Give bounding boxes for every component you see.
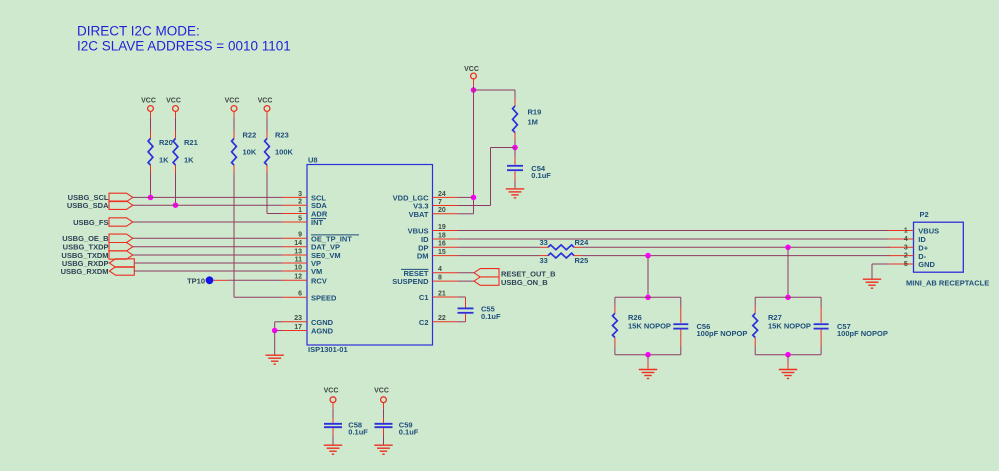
pin 3 SCL of U8 <box>282 196 307 198</box>
wire R22 to SPEED pin <box>233 173 235 297</box>
svg-text:5: 5 <box>904 261 908 268</box>
svg-text:VCC: VCC <box>141 97 156 104</box>
pin 17 AGND of U8 <box>282 330 307 332</box>
wire bottom rail to ground 2 <box>787 355 789 362</box>
svg-text:2: 2 <box>298 199 302 206</box>
pin 4 RESET of U8 <box>433 272 458 274</box>
resistor R26 <box>614 297 616 305</box>
junction R27/C57 bottom <box>785 352 791 358</box>
resistor R27 <box>754 297 756 305</box>
svg-text:USBG_SDA: USBG_SDA <box>67 201 109 210</box>
port flag USBG_FS <box>109 218 133 226</box>
wire R24 to P2 D+ <box>582 246 890 248</box>
svg-text:1: 1 <box>904 228 908 235</box>
svg-text:8: 8 <box>438 275 442 282</box>
svg-text:VCC: VCC <box>258 97 273 104</box>
svg-text:INT: INT <box>311 218 324 227</box>
pin 2 SDA of U8 <box>282 204 307 206</box>
svg-text:MINI_AB RECEPTACLE: MINI_AB RECEPTACLE <box>906 279 989 288</box>
wire USBG_SDA to U8 <box>133 204 282 206</box>
svg-text:C1: C1 <box>419 293 429 302</box>
svg-text:TP10: TP10 <box>187 276 205 285</box>
wire VCC to R21 <box>175 118 177 131</box>
svg-text:R25: R25 <box>575 256 589 265</box>
wire VCC to R20 <box>150 118 152 131</box>
svg-text:4: 4 <box>438 266 442 273</box>
capacitor C56 <box>680 297 682 307</box>
resistor R22 <box>233 131 235 139</box>
capacitor C57 <box>820 297 822 307</box>
svg-text:23: 23 <box>294 315 302 322</box>
junction DM tap <box>645 253 651 259</box>
wire ID net <box>458 238 891 240</box>
wire R26/C56 top rail <box>615 296 681 298</box>
svg-text:4: 4 <box>904 236 908 243</box>
svg-text:17: 17 <box>294 324 302 331</box>
svg-text:33: 33 <box>540 238 548 247</box>
capacitor C55 <box>465 297 467 308</box>
svg-text:RCV: RCV <box>311 276 327 285</box>
svg-text:USBG_ON_B: USBG_ON_B <box>501 278 548 287</box>
svg-text:16: 16 <box>438 241 446 248</box>
svg-text:R22: R22 <box>243 131 257 140</box>
port flag USBG_OE_B <box>109 234 133 242</box>
svg-text:100K: 100K <box>275 148 294 157</box>
svg-text:USBG_FS: USBG_FS <box>73 218 108 227</box>
pin 10 VM of U8 <box>282 270 307 272</box>
junction R19/C54/V3.3 <box>512 145 518 151</box>
ground below R27/C57 <box>779 369 797 371</box>
pin 14 DAT_VP of U8 <box>282 246 307 248</box>
wire VCC to R23 <box>266 118 268 131</box>
wire DM tap down <box>647 256 649 298</box>
wire R27/C57 bottom rail <box>755 354 821 356</box>
resistor R23 <box>266 131 268 139</box>
svg-text:10: 10 <box>294 264 302 271</box>
wire USBG_SCL to U8 <box>133 196 282 198</box>
svg-text:9: 9 <box>298 232 302 239</box>
svg-text:CGND: CGND <box>311 318 334 327</box>
port flag USBG_TXDP <box>109 243 133 251</box>
wire DM to R25 <box>458 255 541 257</box>
op-amp U8 body (ISP1301-01 box) <box>307 165 433 346</box>
svg-text:R20: R20 <box>159 138 173 147</box>
wire bottom rail to ground <box>647 355 649 362</box>
svg-text:R24: R24 <box>575 238 590 247</box>
connector P2 body <box>914 222 964 272</box>
pin 9 OE_TP_INT of U8 <box>282 237 307 239</box>
svg-text:1K: 1K <box>184 156 194 165</box>
svg-text:6: 6 <box>298 291 302 298</box>
svg-text:I2C SLAVE ADDRESS = 0010 1101: I2C SLAVE ADDRESS = 0010 1101 <box>77 39 291 54</box>
port flag USBG_TXDM <box>109 251 133 259</box>
pin 1 ADR of U8 <box>282 213 307 215</box>
pin 7 V3.3 of U8 <box>433 205 458 207</box>
svg-text:VBAT: VBAT <box>409 210 429 219</box>
resistor R19 <box>514 98 516 106</box>
pin 4 ID of P2 <box>889 238 914 240</box>
svg-text:VCC: VCC <box>166 97 181 104</box>
svg-text:11: 11 <box>295 256 303 263</box>
ground below C54 <box>506 188 524 190</box>
wire VCC to R19 top <box>474 89 516 91</box>
wire R21 to SDA net <box>175 173 177 205</box>
svg-text:3: 3 <box>904 244 908 251</box>
wire R26/C56 bottom rail <box>615 354 681 356</box>
capacitor C54 <box>514 148 516 158</box>
wire VBUS net <box>458 230 891 232</box>
svg-text:1: 1 <box>298 207 302 214</box>
wire VCC to C58 <box>332 409 334 418</box>
svg-text:AGND: AGND <box>311 327 334 336</box>
svg-text:7: 7 <box>438 199 442 206</box>
port flag RESET_OUT_B <box>474 269 499 277</box>
wire SUSPEND pin to flag <box>458 280 475 282</box>
pin 20 VBAT of U8 <box>433 213 458 215</box>
junction VDD_LGC <box>471 195 477 201</box>
wire CGND down to AGND <box>274 322 276 331</box>
wire CGND pin <box>275 321 282 323</box>
ground at P2 <box>863 278 881 280</box>
junction R20/SCL <box>148 195 154 201</box>
wire VCC to R22 <box>233 118 235 131</box>
svg-text:VM: VM <box>311 267 322 276</box>
svg-text:24: 24 <box>438 191 446 198</box>
svg-text:U8: U8 <box>308 156 318 165</box>
wire P2 GND to ground <box>872 263 889 265</box>
svg-text:0.1uF: 0.1uF <box>399 428 419 437</box>
wire TP10 to RCV pin <box>228 279 282 281</box>
svg-text:VCC: VCC <box>374 388 389 395</box>
pin 21 C1 of U8 <box>433 296 458 298</box>
capacitor C59 <box>383 418 385 423</box>
svg-text:0.1uF: 0.1uF <box>531 171 551 180</box>
pin 24 VDD_LGC of U8 <box>433 196 458 198</box>
wire VDD_LGC pin to rail <box>458 196 474 198</box>
wire C1 pin to C55 <box>458 296 466 298</box>
pin 6 SPEED of U8 <box>282 296 307 298</box>
svg-text:VCC: VCC <box>324 388 339 395</box>
svg-text:C2: C2 <box>419 318 429 327</box>
svg-text:12: 12 <box>294 274 302 281</box>
junction AGND <box>272 328 278 334</box>
wire R25 to P2 D- <box>582 255 890 257</box>
svg-text:10K: 10K <box>243 148 257 157</box>
ground below U8 <box>266 354 284 356</box>
wire USBG_TXDP to U8 <box>133 246 282 248</box>
pin 22 C2 of U8 <box>433 321 458 323</box>
junction R27/C57 top <box>785 295 791 301</box>
wire R20 to SCL net <box>150 173 152 197</box>
pin 18 ID of U8 <box>433 238 458 240</box>
svg-text:18: 18 <box>438 232 446 239</box>
junction R26/C56 bottom <box>645 352 651 358</box>
pin 1 VBUS of P2 <box>889 230 914 232</box>
resistor R20 <box>150 131 152 139</box>
pin 8 SUSPEND of U8 <box>433 280 458 282</box>
wire R19 bottom to junction <box>514 141 516 148</box>
svg-text:ISP1301-01: ISP1301-01 <box>308 345 348 354</box>
svg-text:R21: R21 <box>184 138 198 147</box>
svg-text:GND: GND <box>918 260 935 269</box>
svg-text:13: 13 <box>294 248 302 255</box>
wire AGND pin <box>275 330 282 332</box>
junction R21/SDA <box>173 202 179 208</box>
pin 13 SE0_VM of U8 <box>282 254 307 256</box>
wire DP tap down <box>787 247 789 297</box>
svg-text:VCC: VCC <box>464 66 479 73</box>
capacitor C58 <box>332 418 334 423</box>
svg-text:19: 19 <box>438 224 446 231</box>
resistor R24 <box>540 246 548 248</box>
pin 11 VP of U8 <box>282 262 307 264</box>
wire VCC to C59 <box>383 409 385 418</box>
svg-text:15K NOPOP: 15K NOPOP <box>628 322 671 331</box>
wire USBG_RXDP to U8 <box>134 262 282 264</box>
svg-text:22: 22 <box>438 315 446 322</box>
svg-text:R23: R23 <box>275 131 289 140</box>
wire VBAT pin to rail <box>458 213 474 215</box>
svg-text:0.1uF: 0.1uF <box>481 312 501 321</box>
svg-text:SUSPEND: SUSPEND <box>392 277 429 286</box>
resistor R25 <box>540 255 548 257</box>
pin 12 RCV of U8 <box>282 279 307 281</box>
svg-text:21: 21 <box>438 290 446 297</box>
ground below C58 <box>324 444 342 446</box>
svg-text:DM: DM <box>417 252 429 261</box>
svg-text:SPEED: SPEED <box>311 293 337 302</box>
port flag USBG_ON_B <box>474 277 499 285</box>
port flag USBG_RXDP <box>109 259 134 267</box>
svg-text:33: 33 <box>540 256 548 265</box>
pin 5 GND of P2 <box>889 263 914 265</box>
pin 16 DP of U8 <box>433 246 458 248</box>
junction VCC rail <box>471 87 477 93</box>
wire USBG_TXDM to U8 <box>133 254 282 256</box>
pin 3 D+ of P2 <box>889 246 914 248</box>
svg-text:3: 3 <box>298 191 302 198</box>
svg-text:14: 14 <box>294 240 302 247</box>
wire USBG_OE_B to U8 <box>133 237 282 239</box>
port flag USBG_SCL <box>109 193 133 201</box>
pin 5 INT of U8 <box>282 221 307 223</box>
svg-text:100pF NOPOP: 100pF NOPOP <box>837 329 888 338</box>
svg-text:P2: P2 <box>920 210 929 219</box>
svg-text:USBG_RXDM: USBG_RXDM <box>61 267 109 276</box>
svg-text:DIRECT I2C MODE:: DIRECT I2C MODE: <box>77 24 200 39</box>
wire RESET pin to flag <box>458 272 475 274</box>
port flag USBG_SDA <box>109 201 133 209</box>
ground below C59 <box>374 444 392 446</box>
resistor R21 <box>175 131 177 139</box>
pin 23 CGND of U8 <box>282 321 307 323</box>
svg-text:20: 20 <box>438 207 446 214</box>
pin 19 VBUS of U8 <box>433 230 458 232</box>
svg-text:15K NOPOP: 15K NOPOP <box>768 322 811 331</box>
wire C55 to C2 pin <box>458 321 466 323</box>
wire R27/C57 top rail <box>755 296 821 298</box>
ground below R26/C56 <box>639 369 657 371</box>
wire USBG_RXDM to U8 <box>134 270 282 272</box>
wire R23 to ADR pin <box>266 173 268 214</box>
wire VCC rail down to VDD_LGC/VBAT <box>473 86 475 214</box>
svg-text:0.1uF: 0.1uF <box>348 428 368 437</box>
junction DP tap <box>785 245 791 251</box>
svg-text:1K: 1K <box>159 156 169 165</box>
svg-text:1M: 1M <box>528 118 538 127</box>
pin 2 D- of P2 <box>889 255 914 257</box>
svg-text:100pF NOPOP: 100pF NOPOP <box>697 329 748 338</box>
svg-text:5: 5 <box>298 215 302 222</box>
wire AGND to ground <box>274 331 276 355</box>
svg-text:R19: R19 <box>528 108 542 117</box>
port flag USBG_RXDM <box>109 267 134 275</box>
wire DP to R24 <box>458 246 541 248</box>
wire junction to V3.3 pin <box>491 147 516 149</box>
svg-text:VCC: VCC <box>225 97 240 104</box>
pin 15 DM of U8 <box>433 255 458 257</box>
svg-text:15: 15 <box>438 249 446 256</box>
junction R26/C56 top <box>645 295 651 301</box>
wire USBG_FS to U8 <box>133 221 282 223</box>
svg-text:2: 2 <box>904 253 908 260</box>
